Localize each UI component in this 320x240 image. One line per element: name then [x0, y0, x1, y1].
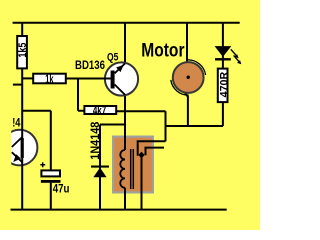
motor M1 body — [173, 62, 204, 93]
wire motor vertical — [185, 23, 188, 126]
transistor Q4 upper diagonal — [12, 137, 22, 147]
capacitor C1 top plate — [41, 170, 60, 176]
transistor Q4 base bar — [21, 138, 24, 158]
wire LED 470R vertical — [222, 23, 224, 126]
svg-text:!4: !4 — [12, 115, 20, 129]
wire capacitor branch — [22, 111, 51, 210]
svg-text:Q5: Q5 — [107, 51, 118, 63]
LED D2 cathode bar — [215, 58, 231, 60]
wire left stub — [13, 84, 22, 86]
svg-text:1k: 1k — [45, 73, 54, 86]
svg-text:4k7: 4k7 — [93, 104, 106, 117]
wire relay contact throw 1 — [138, 141, 166, 156]
transistor Q4 emitter arrow — [13, 154, 21, 162]
transistor Q4 lower diagonal — [12, 152, 22, 162]
wire left vertical (node from 1k5 chain) — [21, 23, 23, 210]
capacitor C1 plus sign — [40, 162, 45, 167]
motor M1 arc bottom left — [171, 80, 189, 95]
resistor 470R — [218, 69, 228, 103]
wire Q5 base inside circle — [104, 78, 113, 80]
relay core — [131, 149, 134, 189]
transistor Q5 collector diagonal — [115, 85, 125, 95]
svg-text:BD136: BD136 — [75, 58, 105, 72]
resistor 1k5 — [17, 36, 27, 68]
svg-text:1k5: 1k5 — [17, 43, 29, 58]
wire relay right vertical — [165, 111, 167, 141]
motor M1 arc top right — [188, 60, 206, 75]
wire 4k7 left branch — [78, 79, 84, 111]
wire relay contact throw 2 stub — [146, 148, 165, 156]
resistor 4k7 — [84, 106, 116, 114]
motor M1 shaft dot — [187, 76, 190, 79]
wire Q5 base — [66, 78, 113, 80]
relay K1 body — [113, 137, 153, 193]
LED D2 arrow 1 — [231, 49, 237, 55]
diode D1 1N4148 cathode bar — [91, 166, 109, 168]
transistor Q5 emitter diagonal — [115, 64, 125, 74]
capacitor C1 bottom plate — [41, 180, 61, 183]
LED D2 arrow 2 — [234, 55, 240, 61]
svg-text:1N4148: 1N4148 — [90, 121, 102, 160]
wire 4k7 right — [116, 110, 165, 112]
wire relay contact common — [141, 155, 143, 210]
relay coil — [120, 150, 125, 188]
wire bottom rail — [11, 209, 227, 211]
transistor Q4 circle — [2, 130, 38, 166]
svg-text:Motor: Motor — [141, 40, 185, 61]
transistor Q5 circle — [105, 62, 138, 95]
svg-text:47u: 47u — [53, 181, 70, 195]
wire 1k left lead — [22, 77, 33, 79]
svg-text:470R: 470R — [218, 72, 230, 98]
wire top rail — [13, 22, 240, 24]
transistor Q5 emitter arrow — [116, 65, 124, 72]
wire Q5 collector-emitter vertical — [124, 23, 126, 210]
LED D2 triangle — [215, 46, 232, 57]
diode D1 1N4148 triangle — [93, 168, 106, 178]
relay contact diamond — [138, 152, 144, 159]
transistor Q5 base bar — [111, 71, 115, 89]
resistor 1k — [33, 74, 66, 84]
wire diode branch — [100, 125, 125, 210]
wire mid rail — [166, 125, 224, 127]
